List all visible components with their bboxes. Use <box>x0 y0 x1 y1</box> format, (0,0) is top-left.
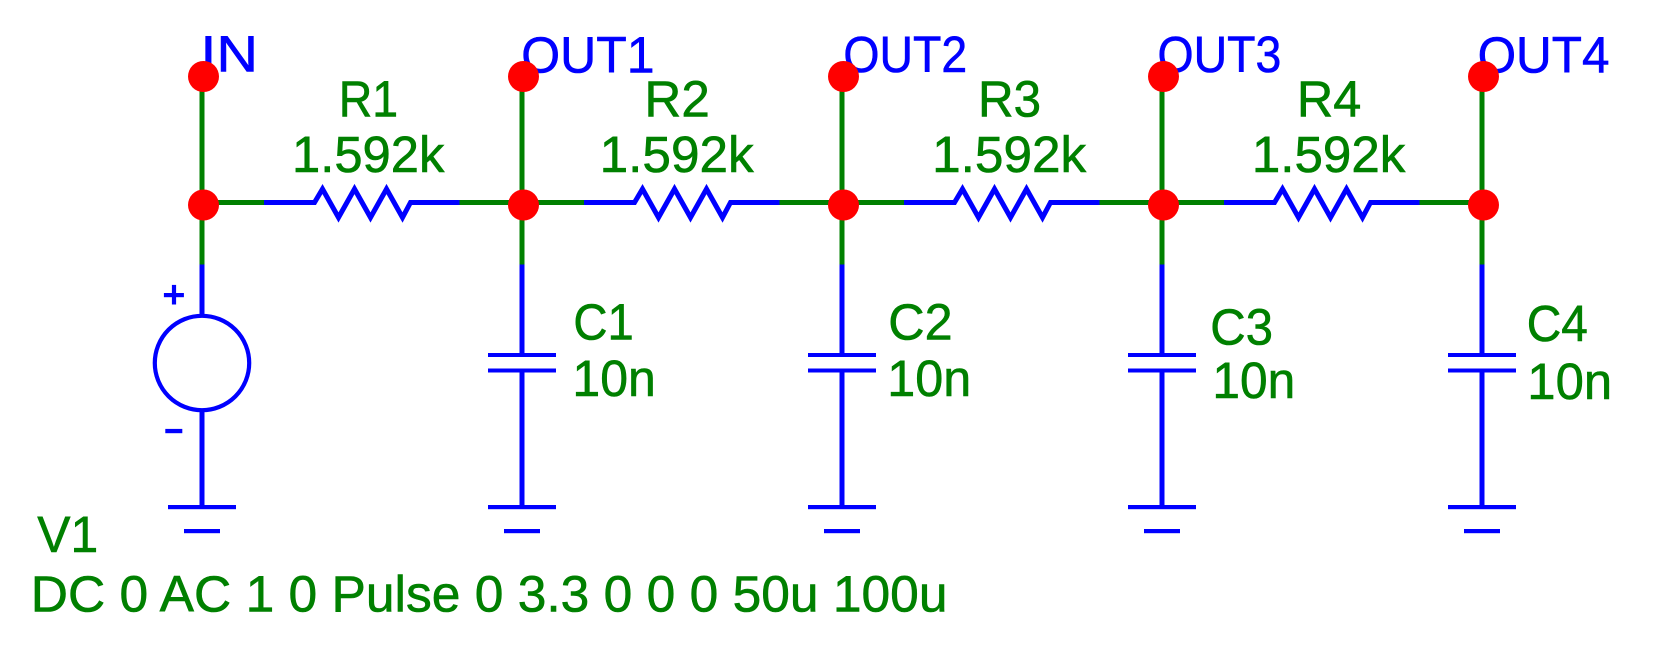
resistor R1 <box>264 189 460 218</box>
svg-text:R2: R2 <box>644 71 709 128</box>
ground under C2 <box>808 505 876 533</box>
svg-text:1.592k: 1.592k <box>292 126 445 183</box>
wire vertical IN port to junction <box>200 76 205 207</box>
wire stub below junction OUT2 <box>840 205 845 265</box>
svg-text:10n: 10n <box>1527 353 1612 410</box>
capacitor C3 <box>1128 265 1196 506</box>
svg-text:10n: 10n <box>572 350 655 407</box>
resistor R3 <box>904 189 1100 218</box>
ground under C4 <box>1448 505 1516 533</box>
svg-text:C4: C4 <box>1527 295 1588 352</box>
wire main segment right of R3 <box>1100 200 1165 205</box>
junction dot at OUT1 on main wire <box>508 190 539 221</box>
node OUT1 port dot <box>508 61 539 92</box>
junction dot at IN on main wire <box>188 190 219 221</box>
wire vertical OUT3 port to junction <box>1160 76 1165 207</box>
junction dot at OUT4 on main wire <box>1468 190 1499 221</box>
node OUT2 port dot <box>828 61 859 92</box>
resistor R4 <box>1224 189 1420 218</box>
capacitor C2 <box>808 265 876 506</box>
svg-text:R1: R1 <box>339 71 398 128</box>
ground under C1 <box>488 505 556 533</box>
wire main segment right of R2 <box>780 200 845 205</box>
wire vertical OUT4 port to junction <box>1480 76 1485 207</box>
ground under C3 <box>1128 505 1196 533</box>
node IN port dot <box>188 61 219 92</box>
ground under V1 <box>168 505 236 533</box>
wire vertical OUT1 port to junction <box>520 76 525 207</box>
wire stub below junction IN <box>200 205 205 265</box>
svg-text:C1: C1 <box>573 294 633 351</box>
capacitor C4 <box>1448 265 1516 506</box>
resistor R2 <box>584 189 780 218</box>
wire main segment left of R2 <box>520 200 587 205</box>
voltage source V1 <box>155 265 249 506</box>
svg-text:V1: V1 <box>37 506 98 563</box>
svg-text:C3: C3 <box>1210 298 1273 355</box>
svg-text:R4: R4 <box>1297 71 1361 128</box>
capacitor C1 <box>488 265 556 506</box>
svg-text:R3: R3 <box>978 71 1041 128</box>
node OUT3 port dot <box>1148 61 1179 92</box>
wire main segment left of R1 <box>200 200 267 205</box>
wire stub below junction OUT4 <box>1480 205 1485 265</box>
svg-text:OUT1: OUT1 <box>521 26 654 83</box>
node OUT4 port dot <box>1468 61 1499 92</box>
svg-text:DC 0 AC 1 0 Pulse 0 3.3 0 0 0: DC 0 AC 1 0 Pulse 0 3.3 0 0 0 50u 100u <box>31 565 948 622</box>
wire main segment left of R4 <box>1160 200 1227 205</box>
junction dot at OUT2 on main wire <box>828 190 859 221</box>
wire main segment left of R3 <box>840 200 907 205</box>
junction dot at OUT3 on main wire <box>1148 190 1179 221</box>
svg-text:C2: C2 <box>888 293 952 350</box>
svg-text:10n: 10n <box>1212 352 1295 409</box>
wire stub below junction OUT3 <box>1160 205 1165 265</box>
svg-text:OUT2: OUT2 <box>843 26 967 83</box>
wire stub below junction OUT1 <box>520 205 525 265</box>
wire main segment right of R1 <box>460 200 525 205</box>
wire main segment right of R4 <box>1420 200 1485 205</box>
svg-text:10n: 10n <box>887 350 971 407</box>
svg-text:1.592k: 1.592k <box>932 126 1087 183</box>
wire vertical OUT2 port to junction <box>840 76 845 207</box>
svg-text:1.592k: 1.592k <box>600 126 755 183</box>
svg-text:1.592k: 1.592k <box>1252 126 1406 183</box>
